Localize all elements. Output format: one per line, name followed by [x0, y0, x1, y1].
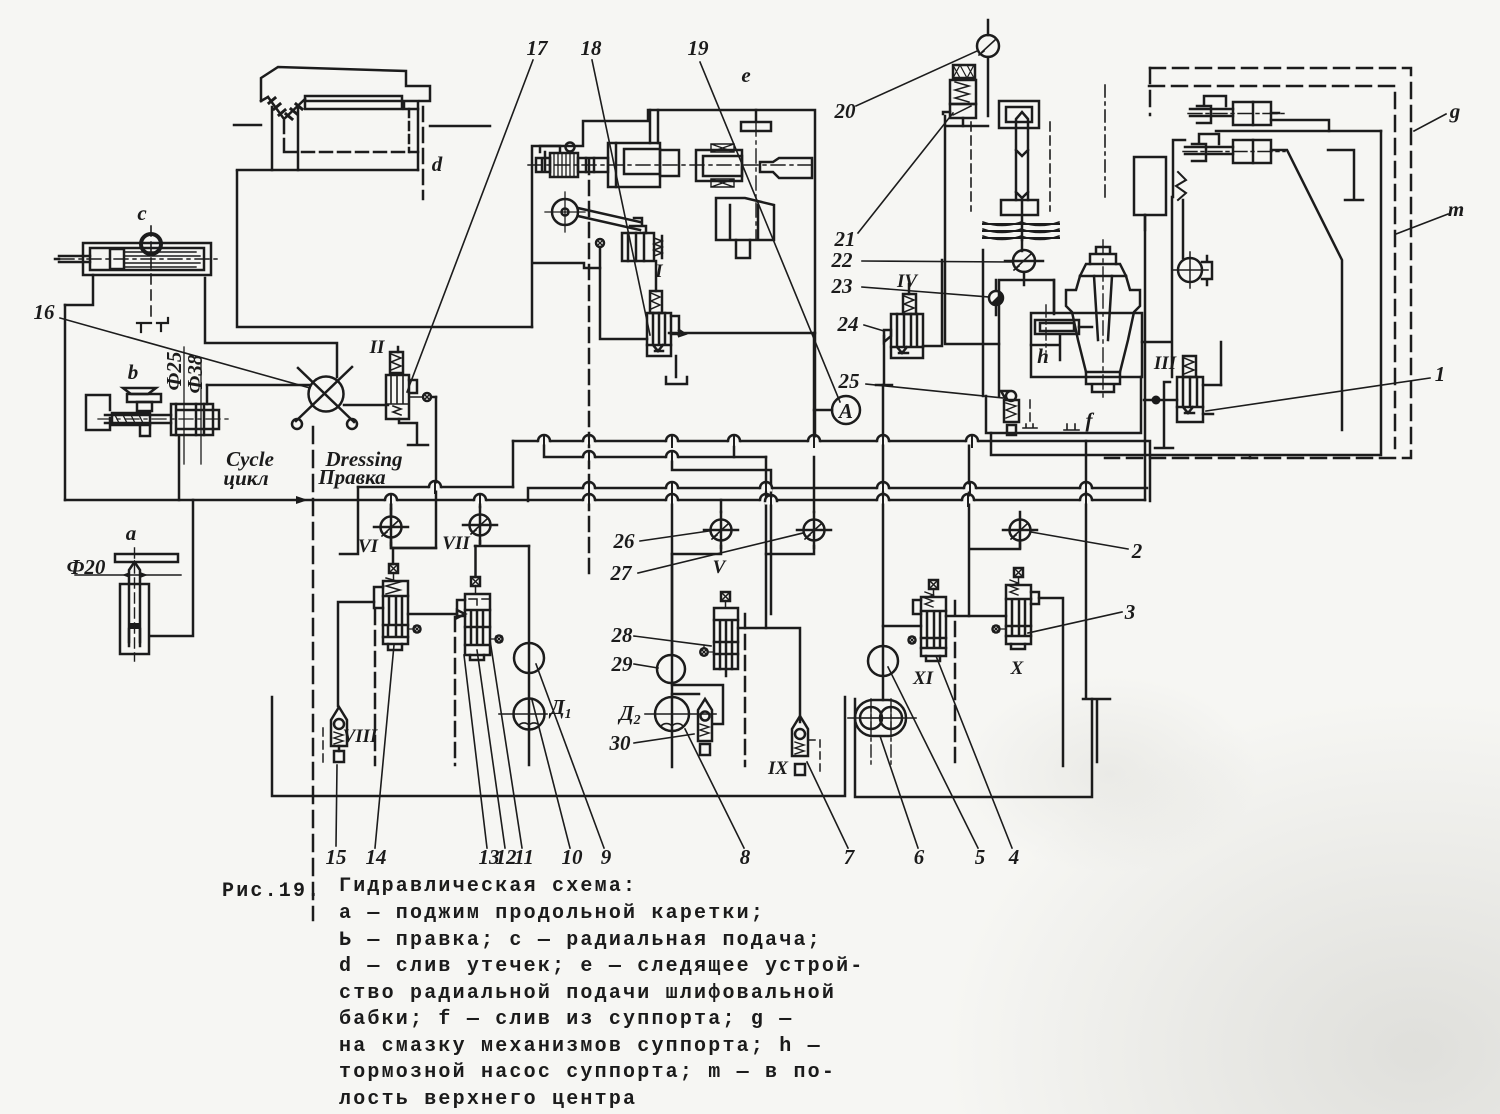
wire drop x=883 [882, 385, 885, 646]
leader 3 [1028, 612, 1122, 633]
svg-text:Ф20: Ф20 [67, 555, 106, 579]
wire from valve 21 area down [945, 116, 999, 344]
e bearing squares [711, 144, 734, 187]
a piston dark [129, 623, 140, 629]
h inner step [1031, 336, 1060, 360]
e small dot top [566, 143, 575, 152]
wire bus y=488 right [528, 441, 1150, 501]
svg-text:VI: VI [358, 536, 379, 557]
e-box bottom right wire [669, 332, 815, 335]
svg-text:d: d [432, 152, 443, 176]
dashed x=955 XI bracket [954, 601, 957, 765]
svg-text:Рис.19.: Рис.19. [222, 880, 321, 903]
valve I spring box [650, 291, 662, 313]
a cylinder body [120, 584, 149, 654]
svg-text:c: c [137, 201, 147, 225]
leader 29 [634, 664, 658, 668]
e vertical dash-dot [755, 122, 757, 240]
cone inner [1086, 276, 1120, 392]
valve II drop wire [431, 396, 436, 399]
cylinder 2 left bracket [1173, 140, 1185, 197]
svg-text:Правка: Правка [317, 465, 385, 489]
b dim line 38 [200, 360, 202, 464]
cylinder c hatch fill [124, 252, 200, 267]
wire valve 14 to valve 13 [408, 610, 465, 618]
leader 14 [375, 645, 394, 848]
wire XI to X [946, 615, 1006, 618]
right vertical [417, 109, 420, 170]
cylinder 2 right wires [1271, 150, 1342, 430]
cylinder b inner [176, 404, 213, 435]
svg-text:Ф38: Ф38 [183, 354, 207, 393]
valve 21 outlet [943, 112, 963, 126]
gauge 27 [766, 457, 831, 554]
leader g [1414, 114, 1446, 131]
v-groove [268, 97, 305, 119]
cylinder c centerline [60, 258, 218, 260]
leader 22 [862, 261, 1012, 262]
svg-text:а — поджим продольной каретки;: а — поджим продольной каретки; [339, 902, 765, 925]
rotary valve circle [309, 377, 344, 412]
svg-text:5: 5 [975, 845, 986, 869]
leader 21 [858, 113, 953, 233]
dashed outer g box [1105, 68, 1411, 458]
e tracer spring [654, 238, 662, 256]
dashed bracket VIII [322, 728, 324, 765]
tank left [272, 697, 845, 796]
svg-text:22: 22 [831, 248, 854, 272]
valve 21 hatched top [953, 65, 975, 78]
leader 24 [864, 325, 884, 331]
leader 2 [1031, 532, 1128, 549]
leader m [1396, 214, 1448, 234]
valve I drain cup [666, 356, 687, 384]
wire station to gauge22 [1021, 240, 1024, 251]
svg-text:h: h [1037, 344, 1049, 368]
svg-text:I: I [654, 261, 663, 282]
valve IV left tab [884, 330, 891, 342]
cone top cap [1080, 264, 1126, 276]
wire drop x=969 [968, 441, 971, 616]
station spool [1016, 112, 1028, 200]
svg-text:4: 4 [1008, 845, 1020, 869]
svg-text:18: 18 [581, 36, 603, 60]
wire drop x=814 valve I to bus and A [813, 333, 816, 441]
svg-text:f: f [1086, 408, 1095, 432]
cone body [1066, 276, 1140, 372]
wire bus y=457 second bus [544, 441, 766, 457]
svg-text:19: 19 [688, 36, 710, 60]
wire drop x=358 [340, 487, 358, 554]
b drain stub [140, 425, 150, 436]
carriage section outline [234, 67, 490, 126]
h spool [1035, 320, 1079, 334]
wire riser connecting 487 to 441 [512, 441, 515, 487]
wire left outline vertical x=65 [64, 305, 67, 500]
leader 13 [464, 655, 487, 848]
svg-text:2: 2 [1131, 539, 1143, 563]
svg-text:d — слив утечек; е — следящее: d — слив утечек; е — следящее устрой- [339, 955, 864, 978]
zigzag break symbol [1176, 172, 1186, 200]
slide rectangle [305, 96, 402, 109]
leader 25 [866, 384, 1003, 398]
wire step at cylinder c [65, 275, 93, 305]
wire 28 right to IX [738, 628, 800, 722]
b funnel [123, 388, 156, 394]
valve III bracket ground [1155, 382, 1173, 448]
svg-text:13: 13 [479, 845, 500, 869]
wire IV valve right up [923, 260, 942, 346]
e right cone [760, 158, 812, 178]
svg-text:IV: IV [896, 271, 918, 292]
e right shaft [696, 150, 742, 181]
svg-text:лость верхнего центра: лость верхнего центра [339, 1088, 637, 1111]
svg-text:6: 6 [914, 845, 925, 869]
leader 9 [536, 664, 604, 848]
dashed divider cycle/dressing x=313 [312, 427, 315, 920]
e lower bracket [716, 198, 774, 240]
x=1172 drop [1142, 197, 1221, 385]
leader 17 [407, 60, 533, 392]
svg-text:20: 20 [834, 99, 857, 123]
leader 16 [60, 318, 310, 388]
leader 30 [634, 734, 694, 743]
gauge 2 [970, 512, 1037, 549]
leader 18 [592, 60, 650, 335]
svg-text:b: b [128, 360, 139, 384]
svg-text:24: 24 [837, 312, 859, 336]
valve III left dot [1152, 396, 1161, 405]
leader 28 [634, 636, 711, 646]
leader 1 [1206, 378, 1430, 411]
svg-text:ство радиальной подачи шлифова: ство радиальной подачи шлифовальной [339, 982, 836, 1005]
block near m left [1134, 157, 1166, 215]
wire rotary valve to valve II [344, 404, 388, 407]
leader 5 [888, 667, 978, 848]
filter circle [1178, 258, 1202, 282]
gauge VI [374, 500, 436, 548]
svg-text:16: 16 [34, 300, 56, 324]
valve II spring box [390, 352, 403, 373]
cylinder b body [171, 404, 213, 435]
a dim line with arrows [75, 574, 181, 576]
station spring stack [983, 224, 1059, 238]
leader 10 [532, 700, 570, 848]
dashed x=745 valve28 bracket [744, 614, 747, 766]
drain marks below c [137, 318, 168, 332]
wire drop x=766 to valve28 [765, 457, 768, 628]
cylinder c knob circle [141, 234, 161, 254]
e roller arm [578, 208, 640, 230]
svg-text:g: g [1449, 99, 1461, 123]
svg-text:8: 8 [740, 845, 751, 869]
gauge VII [463, 500, 529, 546]
a piston rod [129, 562, 140, 642]
svg-text:25: 25 [838, 369, 860, 393]
e big block [608, 143, 660, 187]
svg-text:тормозной насос суппорта; m —: тормозной насос суппорта; m — в по- [339, 1061, 836, 1084]
svg-text:28: 28 [611, 623, 634, 647]
station dashed sides [971, 122, 1050, 211]
h/f region bottom [986, 377, 1141, 433]
cylinder 1 upper [1233, 102, 1271, 125]
valve II side port dot [423, 393, 431, 401]
wire bus y=470 stepped line [672, 457, 771, 614]
leader 12 [477, 650, 505, 848]
rotary valve X arms [296, 367, 354, 422]
svg-text:27: 27 [610, 561, 634, 585]
dashed inner box [1149, 86, 1395, 448]
svg-text:7: 7 [844, 845, 856, 869]
svg-text:XI: XI [912, 668, 934, 689]
dashed x=375 [374, 610, 377, 765]
svg-text:III: III [1153, 353, 1177, 374]
leader 7 [807, 762, 848, 848]
leader 6 [880, 736, 918, 848]
cylinder 2 lower [1233, 140, 1271, 163]
svg-text:V: V [713, 557, 727, 578]
cylinder c vertical centerline [150, 226, 152, 322]
wire drop to component a [150, 500, 193, 636]
leader 23 [862, 287, 989, 297]
svg-text:17: 17 [527, 36, 550, 60]
inner dashed centerline [284, 121, 418, 152]
svg-text:9: 9 [601, 845, 612, 869]
e mechanism centerline [528, 164, 812, 166]
leader 26 [640, 531, 709, 541]
inner verticals [272, 107, 298, 170]
a top bar [115, 554, 178, 562]
cylinder b end cap [213, 410, 219, 429]
wire bus y=441 upper bus [513, 440, 1145, 443]
e tracer valve [622, 233, 654, 261]
rectangle outline [237, 171, 532, 327]
e top right box [741, 110, 771, 131]
leader 19 [700, 62, 840, 402]
h box [1031, 313, 1142, 377]
valve II body [386, 375, 409, 419]
wire bus y=500 main low bus [65, 499, 1145, 502]
svg-text:11: 11 [514, 845, 534, 869]
dashed e centerline x=589 [588, 160, 591, 578]
e block stems to top [650, 110, 658, 143]
f drain symbol [1064, 424, 1079, 430]
valve III right wires [1203, 385, 1221, 414]
leader 8 [685, 729, 744, 848]
v-groove hatch [269, 98, 302, 119]
wire below b funnel [178, 437, 181, 500]
gauge V [672, 500, 738, 554]
leader 4 [936, 656, 1012, 848]
b rod [105, 415, 171, 423]
valve IV left bracket ground [876, 336, 892, 385]
flow arrow on bus [296, 496, 308, 504]
svg-text:e: e [741, 63, 750, 87]
right end details [404, 101, 418, 109]
wire X drain to tank [1039, 598, 1063, 766]
svg-text:a: a [126, 521, 137, 545]
wire from cylinder c right down [205, 278, 337, 377]
wire valve II down through buses [391, 397, 436, 548]
svg-text:VIII: VIII [343, 726, 378, 747]
svg-text:IX: IX [767, 758, 789, 779]
e-box outline [532, 110, 815, 441]
ground below valve II [399, 419, 428, 445]
cylinder 1 wires [1271, 120, 1329, 131]
svg-text:X: X [1010, 658, 1025, 679]
b left bracket [86, 395, 110, 430]
e drain dot [596, 239, 604, 247]
leader 11 [490, 640, 522, 848]
leader 27 [638, 533, 803, 573]
b centerline [98, 418, 228, 420]
tank right [855, 699, 1092, 797]
svg-text:VII: VII [442, 533, 470, 554]
svg-text:на смазку механизмов суппорта;: на смазку механизмов суппорта; h — [339, 1035, 822, 1058]
dashed d drain line [422, 107, 425, 199]
svg-text:26: 26 [613, 529, 636, 553]
valve 21 spring body [950, 80, 976, 104]
b rod hatch block [112, 413, 150, 425]
valve 21 lower box [950, 104, 976, 118]
cylinder c outer body [83, 243, 211, 275]
e spool parts left [536, 146, 560, 172]
wire bus right end risers [1144, 215, 1147, 500]
svg-text:15: 15 [326, 845, 347, 869]
leader 20 [856, 51, 977, 106]
dot 23 half filled [989, 280, 1003, 315]
dashed x=455 [454, 617, 457, 765]
e roller circle [552, 199, 578, 225]
wire junction hops [385, 435, 1092, 507]
svg-text:m: m [1448, 197, 1464, 221]
rotary valve handle circles [292, 419, 302, 429]
svg-text:бабки; f — слив из суппорта;: бабки; f — слив из суппорта; g — [339, 1008, 793, 1031]
svg-text:14: 14 [366, 845, 387, 869]
cylinder c rod [55, 256, 90, 262]
m inner solid verticals [991, 131, 1381, 458]
h outer lines [999, 280, 1054, 396]
svg-text:Д2: Д2 [617, 701, 640, 728]
cylinder c piston [110, 249, 124, 269]
wire bus y=487 mid bus left [358, 486, 513, 489]
svg-text:цикл: цикл [223, 466, 268, 490]
wire from b to rotary valve [207, 384, 309, 387]
svg-text:30: 30 [609, 731, 632, 755]
h dash-dot [1045, 305, 1047, 352]
svg-text:29: 29 [611, 652, 634, 676]
svg-text:23: 23 [831, 274, 853, 298]
wire vertical to cylinder b [206, 385, 209, 404]
valve I body [647, 313, 671, 356]
svg-text:10: 10 [562, 845, 584, 869]
wire drop x=1087 to tank [1085, 441, 1088, 698]
node A [832, 396, 860, 424]
svg-text:II: II [369, 337, 385, 358]
svg-text:3: 3 [1124, 600, 1136, 624]
wire drop x=672 [671, 500, 674, 655]
svg-text:Ь — правка; с — радиальная под: Ь — правка; с — радиальная подача; [339, 929, 822, 952]
dashed bracket [1029, 400, 1031, 425]
base line [237, 169, 418, 172]
leader 15 [336, 765, 337, 846]
svg-text:Гидравлическая схема:: Гидравлическая схема: [339, 875, 637, 898]
cone centerline [1102, 240, 1104, 400]
tank right vent pipe [1083, 699, 1110, 762]
station crosshead [1001, 200, 1038, 215]
svg-text:1: 1 [1435, 362, 1446, 386]
station cap box [999, 101, 1039, 128]
dashed vertical right [408, 109, 411, 152]
a centerline [134, 548, 136, 661]
wire to valve 14 [338, 602, 374, 706]
b dim line 25 [183, 347, 185, 464]
